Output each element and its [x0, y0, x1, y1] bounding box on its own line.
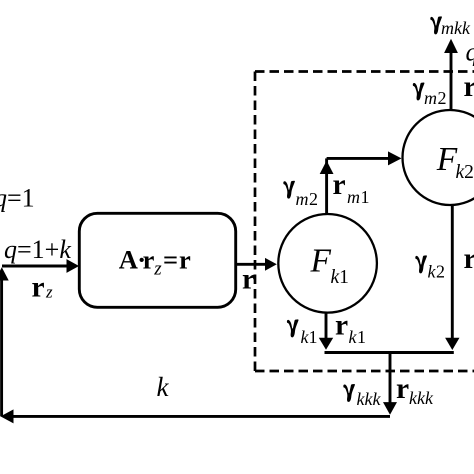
svg-text:q: q — [466, 38, 474, 67]
wire: bend to F_k2 input — [327, 151, 402, 165]
svg-text:m: m — [296, 189, 309, 209]
wire: junction collector line — [325, 351, 454, 354]
dashed subsystem boundary box — [255, 72, 474, 372]
svg-text:r: r — [396, 373, 409, 405]
svg-text:r: r — [464, 71, 474, 103]
svg-text:kkk: kkk — [409, 388, 434, 408]
svg-text:mkk: mkk — [441, 18, 471, 38]
svg-text:r: r — [32, 272, 45, 304]
svg-text:r: r — [242, 264, 255, 296]
svg-text:z: z — [153, 259, 162, 280]
svg-text:2: 2 — [438, 88, 447, 108]
svg-text:r: r — [464, 243, 474, 275]
svg-text:2: 2 — [309, 189, 318, 209]
wire: bottom feedback line with left arrowhead — [1, 409, 391, 423]
svg-text:r: r — [333, 169, 346, 201]
svg-text:1: 1 — [361, 187, 370, 207]
svg-text:r: r — [143, 245, 155, 275]
label gamma_k1 — [287, 319, 299, 337]
svg-text:q=1: q=1 — [0, 184, 35, 213]
svg-text:k2: k2 — [456, 162, 474, 183]
wire: input arrow into block A — [2, 259, 79, 273]
svg-text:F: F — [436, 141, 458, 178]
svg-text:k: k — [157, 372, 170, 402]
wire: F_k2 bottom down arrow — [445, 206, 459, 351]
node F_k1 circle — [278, 214, 377, 313]
label gamma_m2 (upper, near F_k2 top) — [413, 83, 425, 101]
svg-text:=: = — [163, 245, 178, 275]
block U1: rounded rectangle A·r_z=r — [79, 213, 235, 307]
svg-text:r: r — [335, 310, 348, 342]
wire: left feedback vertical with up arrowhead — [0, 267, 9, 416]
svg-text:2: 2 — [436, 262, 445, 282]
svg-text:A: A — [119, 245, 138, 275]
wire: F_k1 top up with arrowhead at bend — [320, 158, 334, 215]
svg-text:kkk: kkk — [357, 389, 382, 409]
svg-text:q=1+k: q=1+k — [4, 235, 71, 264]
wire: junction down to feedback with arrowhead — [383, 353, 397, 415]
svg-text:1: 1 — [309, 327, 318, 347]
label gamma_m2 (mid) — [283, 181, 295, 199]
svg-text:k1: k1 — [331, 267, 349, 288]
svg-text:z: z — [45, 283, 53, 302]
wire: block A to F_k1 — [235, 258, 277, 271]
svg-text:F: F — [310, 243, 332, 280]
label gamma_k2 — [415, 255, 427, 273]
label gamma_mkk — [430, 16, 442, 34]
svg-text:m: m — [424, 88, 437, 108]
node F_k2 circle — [403, 110, 474, 205]
svg-text:1: 1 — [357, 327, 366, 347]
wire: F_k2 top output arrow gamma_mkk — [444, 39, 458, 111]
wire: F_k1 bottom down arrow — [319, 313, 333, 350]
svg-text:m: m — [347, 187, 360, 207]
svg-text:r: r — [179, 245, 191, 275]
label gamma_kkk — [343, 384, 355, 402]
